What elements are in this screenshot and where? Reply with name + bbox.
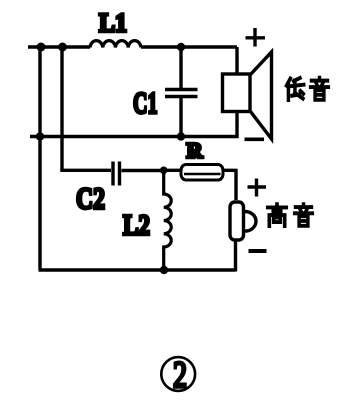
speaker tweeter: body pill [230,202,244,240]
svg-text:2: 2 [173,355,187,396]
wire left rail [38,46,41,271]
plus sign (woofer) [246,28,266,47]
wire C2 corner horizontal [60,169,111,172]
svg-text:L2: L2 [123,210,150,242]
speaker woofer: cone [251,52,272,139]
node: left rail / middle rail junction [36,132,44,140]
svg-text:L1: L1 [99,9,127,38]
svg-text:R: R [187,139,203,163]
inductor L2 [164,169,172,270]
svg-text:C1: C1 [133,85,158,120]
wire C2 feed vertical (crosses middle rail, no connection) [60,46,63,171]
wire top rail (input stub through L1 to woofer corner) [28,45,237,48]
label 高音 (tweeter, "treble") [268,204,286,226]
figure number 2 (circled) [161,357,195,391]
node: L2 bottom junction [160,266,168,274]
minus sign (woofer) [245,138,265,142]
inductor L1 [90,41,141,48]
speaker woofer: driver rectangle [223,74,251,112]
wire tweeter bottom vertical [234,241,237,272]
svg-text:C2: C2 [76,181,105,216]
speaker woofer: top lead [235,47,238,74]
capacitor C2 [113,162,162,186]
node: C2 branch junction on top rail [58,43,67,52]
wire middle rail (left stub to woofer minus corner) [30,135,239,138]
label 低音 (woofer, "bass") [287,78,304,100]
node: C2 / R / L2 junction [160,167,168,175]
plus sign (tweeter) [248,179,267,197]
speaker woofer: bottom lead [235,112,238,139]
resistor R [181,165,223,181]
minus sign (tweeter) [249,249,267,253]
capacitor C1 [165,47,198,137]
wire resistor to tweeter plus corner [223,169,236,200]
node: C1 top junction [177,43,185,51]
speaker tweeter: dome [245,212,256,232]
node: C1 bottom junction [177,132,185,140]
wire junction to resistor [164,169,180,172]
wire bottom rail [39,268,236,271]
node: input+ / left-rail junction [37,43,46,52]
